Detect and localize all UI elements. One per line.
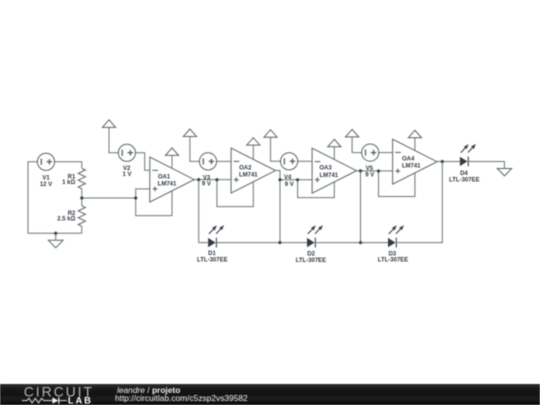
svg-text:D3: D3 <box>388 251 396 257</box>
svg-text:LTL-307EE: LTL-307EE <box>449 178 480 184</box>
svg-text:LM741: LM741 <box>158 182 177 188</box>
svg-text:LTL-307EE: LTL-307EE <box>378 258 409 264</box>
svg-text:V1: V1 <box>42 176 50 182</box>
svg-text:OA3: OA3 <box>319 165 332 171</box>
svg-text:9 V: 9 V <box>285 182 294 188</box>
svg-text:D4: D4 <box>460 171 468 177</box>
svg-text:LTL-307EE: LTL-307EE <box>296 258 327 264</box>
svg-text:V4: V4 <box>284 175 292 181</box>
svg-text:1 V: 1 V <box>122 172 131 178</box>
svg-text:LAB: LAB <box>68 396 93 405</box>
svg-text:9 V: 9 V <box>202 182 211 188</box>
svg-text:D2: D2 <box>307 251 315 257</box>
svg-text:LM741: LM741 <box>319 173 338 179</box>
svg-text:OA4: OA4 <box>402 156 415 162</box>
svg-text:D1: D1 <box>208 251 216 257</box>
svg-text:2.5 kΩ: 2.5 kΩ <box>57 217 75 223</box>
svg-text:1 kΩ: 1 kΩ <box>62 180 75 186</box>
svg-text:OA1: OA1 <box>158 174 171 180</box>
svg-text:V3: V3 <box>203 175 211 181</box>
svg-text:LM741: LM741 <box>239 173 258 179</box>
svg-text:OA2: OA2 <box>239 165 252 171</box>
svg-text:LM741: LM741 <box>402 164 421 170</box>
svg-text:12 V: 12 V <box>40 182 52 188</box>
svg-text:LTL-307EE: LTL-307EE <box>197 258 228 264</box>
svg-text:9 V: 9 V <box>365 172 374 178</box>
svg-text:V5: V5 <box>366 166 374 172</box>
